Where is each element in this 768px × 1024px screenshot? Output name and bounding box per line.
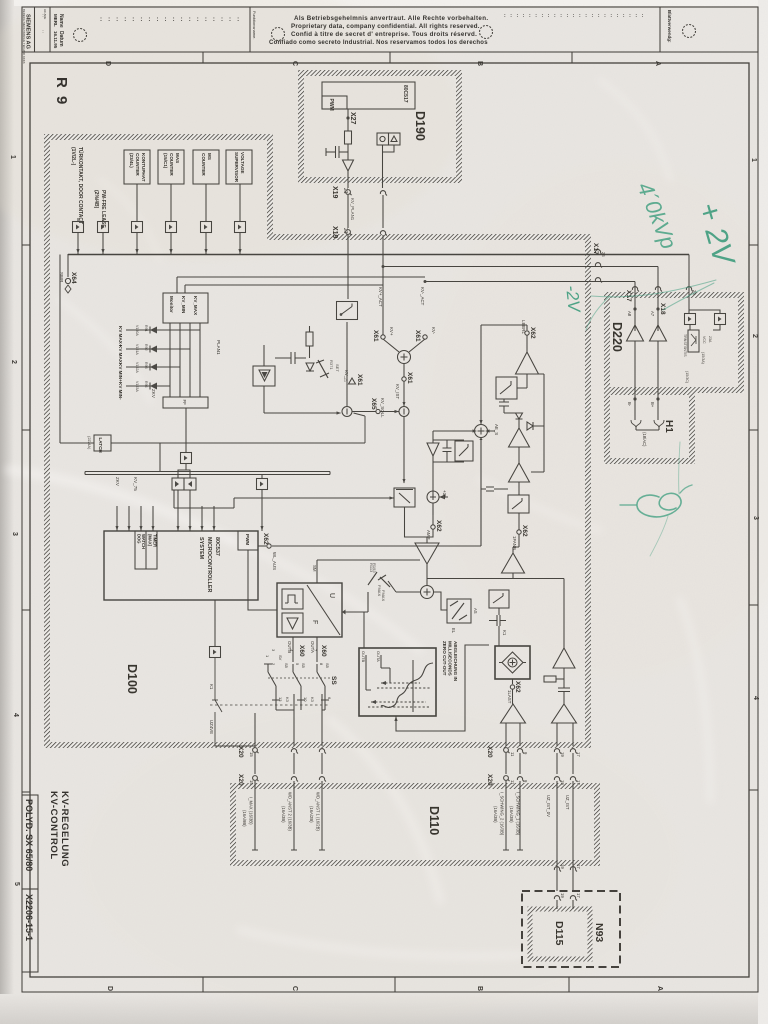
zone tick marks right [749, 244, 758, 246]
buffer amplifier V190 [343, 160, 354, 171]
block D220 hatched border [607, 295, 741, 390]
capacitor C110 [489, 615, 506, 626]
transistor sub box [688, 330, 699, 352]
svg-text:WL_AUS: WL_AUS [272, 552, 277, 570]
svg-text:K1: K1 [209, 684, 214, 690]
svg-text:X61: X61 [406, 372, 413, 384]
svg-text:R113: R113 [369, 563, 374, 573]
svg-text:19: 19 [560, 893, 565, 898]
output amplifier V121 [552, 704, 577, 723]
green doodle (circled scribble) [637, 493, 681, 517]
svg-text:LATCH: LATCH [98, 438, 103, 454]
switch S106 [455, 441, 473, 461]
svg-text:A: A [654, 61, 661, 66]
svg-text:: :: : : [41, 30, 46, 33]
svg-text:21: 21 [342, 188, 348, 194]
svg-text:(16A/3B): (16A/3B) [509, 806, 514, 823]
block D100 hatched border [47, 137, 588, 745]
svg-text:KV_75: KV_75 [133, 477, 138, 491]
capacitor C134 [481, 487, 508, 491]
wire from latch [159, 443, 161, 472]
wire y578 [427, 579, 564, 649]
svg-text:Name: Name [58, 14, 64, 28]
svg-text:WD_ANST 1 (16/2B): WD_ANST 1 (16/2B) [316, 792, 321, 831]
interface boxes row [73, 222, 84, 233]
crease streaks [10, 80, 710, 956]
svg-text:KV MAX+: KV MAX+ [118, 326, 123, 347]
amplifier V130 [516, 352, 539, 374]
svg-text:4: 4 [12, 713, 19, 717]
svg-text:X61: X61 [414, 330, 421, 342]
svg-text:V161A: V161A [135, 344, 139, 355]
feedback wire below scope [396, 645, 489, 731]
block D190 hatched border [301, 73, 459, 180]
svg-text:D: D [106, 986, 113, 991]
interface boxes in D220 [685, 314, 696, 325]
svg-text:FF: FF [182, 400, 187, 406]
svg-text:SV: SV [278, 655, 283, 661]
svg-text:(2Z/4A): (2Z/4A) [87, 436, 92, 450]
summing node +3E [427, 491, 439, 503]
svg-text:LEERL: LEERL [521, 320, 526, 334]
potentiometer R371 SET [318, 360, 328, 378]
svg-text:MICROCONTROLLER: MICROCONTROLLER [206, 537, 212, 593]
svg-text:R 9: R 9 [53, 77, 70, 106]
svg-text:-2V: -2V [562, 284, 584, 314]
wire from summing node S top [481, 325, 527, 330]
svg-text:SIEMENS AG: SIEMENS AG [25, 14, 31, 49]
svg-text:(15/3A): (15/3A) [701, 352, 705, 364]
svg-text:X62: X62 [521, 525, 528, 537]
svg-text:X60: X60 [298, 645, 305, 657]
svg-text:R92: R92 [144, 344, 148, 351]
svg-text:80C537: 80C537 [214, 537, 220, 556]
node X62 1LAST [512, 679, 514, 684]
zone tick marks top [202, 52, 204, 63]
svg-text:AMP: AMP [426, 530, 431, 540]
node X27 [346, 116, 349, 119]
svg-text:UZ4VE: UZ4VE [209, 720, 214, 734]
CPU label [198, 537, 220, 593]
connector boxes in D190 [377, 133, 389, 145]
svg-text:V160A: V160A [135, 325, 139, 336]
svg-text:(18/AC): (18/AC) [642, 432, 647, 447]
svg-text:(16A/9B): (16A/9B) [242, 810, 247, 827]
wires between rows [255, 753, 573, 774]
summing node B [421, 586, 434, 599]
junction nodes A8 A7 in D220 [633, 307, 636, 310]
pins into D115 [554, 896, 561, 901]
wires with arrows to bus [76, 233, 241, 255]
svg-text:OUTA: OUTA [376, 651, 381, 662]
wire KV- to D220 [425, 282, 635, 332]
svg-text:F: F [311, 620, 318, 624]
svg-text:C: C [291, 986, 298, 991]
svg-text:Confid à titre de secret d' en: Confid à titre de secret d' entreprise. … [291, 31, 477, 38]
svg-text:K3: K3 [310, 697, 315, 703]
svg-text:: :: : : [41, 14, 46, 17]
svg-text:COUNTER: COUNTER [169, 153, 174, 176]
svg-text:X19: X19 [331, 226, 338, 239]
long control wires [85, 472, 330, 475]
latch box LATCH (2Z/4A) [94, 435, 111, 451]
main bus wire [68, 254, 689, 256]
wire terminals inside D110 [252, 812, 523, 850]
svg-text:(16A/3B): (16A/3B) [493, 806, 498, 823]
svg-text:B: B [476, 61, 483, 66]
svg-text:UZ_IST_0V: UZ_IST_0V [546, 795, 551, 817]
svg-text:X60: X60 [320, 645, 327, 657]
junction node [342, 407, 352, 417]
svg-text:I_SCHWING_2 (16/3B): I_SCHWING_2 (16/3B) [500, 792, 505, 836]
amplifier V120 [553, 648, 575, 668]
svg-text:11: 11 [510, 780, 515, 785]
svg-text:X61: X61 [372, 330, 379, 342]
wires below F/U: OUTB OUTA [293, 637, 317, 662]
wire from bus +2V [688, 255, 690, 311]
svg-text:S5: S5 [325, 663, 330, 669]
switch S101 on plan wire [337, 302, 358, 320]
svg-text:PWM: PWM [328, 99, 334, 111]
svg-text:X62: X62 [514, 681, 521, 693]
diode V105 [306, 363, 314, 371]
svg-text:A7: A7 [650, 311, 655, 317]
svg-text:Blattverwendg:: Blattverwendg: [667, 10, 672, 43]
buffer amplifiers in D220 [627, 325, 644, 341]
header strip contents [22, 9, 672, 64]
svg-text:X20: X20 [486, 774, 493, 786]
svg-text:KONTUPHAT: KONTUPHAT [141, 153, 146, 182]
relay contact K1 [215, 658, 255, 746]
svg-text:SUPERVISOR: SUPERVISOR [234, 152, 239, 183]
wire from PWM cell [248, 550, 277, 610]
svg-text:MERL: MERL [53, 14, 58, 27]
svg-text:KV+_ACT: KV+_ACT [378, 287, 383, 307]
svg-text:(15/C1): (15/C1) [163, 153, 168, 169]
wire [347, 171, 349, 188]
svg-text:+3E: +3E [442, 490, 447, 498]
svg-text:KV+: KV+ [389, 327, 394, 336]
wire at left x60 [60, 255, 94, 444]
svg-text:V163A: V163A [135, 381, 139, 392]
svg-text:PWM: PWM [245, 534, 250, 545]
svg-text:S5: S5 [301, 663, 306, 669]
scope box ABGLEICHUNG [359, 648, 436, 716]
svg-text:A8: A8 [627, 311, 632, 317]
svg-text:(MAX): (MAX) [148, 534, 153, 547]
node X62 AMP [431, 525, 435, 529]
amplifier V110 (down) [415, 543, 439, 564]
svg-text:COUNTER: COUNTER [135, 153, 140, 176]
capacitor C120 [558, 688, 570, 692]
svg-text:OUTB: OUTB [287, 641, 292, 653]
svg-text:1: 1 [750, 158, 757, 162]
brace [631, 420, 664, 427]
svg-text:I_MAX (16/3B): I_MAX (16/3B) [249, 797, 254, 825]
svg-text:SM: SM [312, 565, 317, 572]
triangle cell [282, 613, 303, 633]
svg-text:2: 2 [10, 360, 17, 364]
svg-text:4: 4 [752, 696, 759, 700]
wires into microcontroller top with arrows [116, 506, 264, 531]
left stub from node1 [111, 413, 365, 443]
svg-text:19: 19 [560, 864, 565, 869]
svg-text:N93: N93 [593, 923, 605, 942]
IC U190 80C517/PWM box [322, 82, 415, 109]
svg-text:AE_S: AE_S [494, 424, 499, 435]
svg-text:: : : : : : : : : : : : : : :: : : : : : : : : : : : : : : : : : : : : … [504, 13, 645, 19]
wire node2 down to limiter [403, 417, 405, 484]
svg-text:KV MAX-: KV MAX- [118, 345, 123, 365]
wire from SS into scope [363, 612, 365, 648]
svg-text:SS: SS [330, 676, 337, 685]
svg-text:80C517: 80C517 [402, 85, 408, 103]
internal stubs [366, 655, 390, 690]
svg-text:19: 19 [560, 780, 565, 785]
zone tick marks left [22, 244, 30, 246]
svg-text:KV_MAX: KV_MAX [193, 296, 198, 316]
svg-text:AS: AS [473, 608, 478, 614]
switch contacts [264, 664, 276, 694]
svg-text:X61: X61 [356, 374, 363, 386]
zone tick marks bottom [202, 977, 204, 992]
wire [426, 564, 428, 586]
svg-text:X62: X62 [262, 533, 269, 545]
svg-text:11: 11 [510, 752, 515, 757]
svg-text:K1: K1 [502, 630, 507, 636]
amplifier V133 [509, 428, 530, 447]
svg-text:S5: S5 [284, 663, 289, 669]
block H1 hatched border [607, 392, 692, 461]
stray green stroke through D220 [591, 280, 716, 297]
svg-text:X20: X20 [486, 746, 493, 758]
svg-text:1: 1 [9, 155, 16, 159]
summing amp X0 [383, 339, 425, 352]
interface box under uC [210, 647, 221, 658]
wire from left into limiter [174, 490, 394, 508]
svg-text:(15/3C): (15/3C) [685, 371, 689, 383]
svg-text:X65: X65 [370, 398, 377, 410]
svg-text:15: 15 [249, 780, 254, 785]
svg-text:(23/4L): (23/4L) [129, 153, 134, 168]
svg-text:Confiado como secreto Industri: Confiado como secreto Industrial. Nos re… [269, 40, 488, 46]
block W93 dashed outline [522, 891, 620, 967]
warm tint patches [0, 0, 460, 260]
multiplier box U115 [495, 646, 530, 679]
switch S130 [526, 374, 528, 378]
junction node 2 [399, 407, 409, 417]
svg-text:A: A [656, 986, 663, 991]
wires from inputs to interface boxes [77, 218, 79, 222]
comparator box with triangle [253, 366, 275, 386]
svg-text:KV_PLAN1: KV_PLAN1 [350, 198, 355, 221]
resistor R120 [544, 676, 556, 682]
svg-text:B+: B+ [650, 402, 655, 408]
svg-text:D100: D100 [125, 664, 139, 694]
wire [347, 109, 349, 131]
svg-text:POLYD. SX 65/80: POLYD. SX 65/80 [24, 799, 34, 871]
svg-text:26: 26 [601, 252, 606, 257]
svg-text:KV MIN+: KV MIN+ [118, 363, 123, 382]
svg-text:5: 5 [13, 882, 20, 886]
svg-text:17: 17 [576, 864, 581, 869]
svg-text:KV-REGELUNG: KV-REGELUNG [59, 791, 70, 867]
svg-text:1LAST: 1LAST [507, 690, 512, 704]
F/U converter box [277, 583, 342, 637]
block D115 hatched border [530, 909, 590, 959]
svg-text:X2206-15-1: X2206-15-1 [24, 894, 34, 941]
wire KVsoll row [352, 411, 399, 413]
svg-text:KV_IST: KV_IST [395, 384, 400, 399]
svg-text:H1: H1 [663, 420, 674, 433]
svg-text:D220: D220 [610, 322, 624, 352]
wire from SM into F/U [317, 560, 420, 583]
amplifier V135 [502, 553, 525, 573]
svg-text:17: 17 [576, 780, 581, 785]
svg-text:X17: X17 [592, 243, 599, 255]
svg-text:D: D [104, 61, 111, 66]
svg-text:ABGLEICHUNG IN: ABGLEICHUNG IN [453, 641, 458, 682]
svg-text:D190: D190 [413, 111, 427, 141]
wire [346, 322, 348, 406]
svg-text:VOLTAGE: VOLTAGE [240, 152, 245, 174]
svg-text:Datum: Datum [58, 31, 64, 47]
wire [383, 145, 395, 188]
svg-text:X20: X20 [237, 774, 244, 786]
amplifier V134 [509, 463, 530, 482]
svg-text:KV-CONTROL: KV-CONTROL [48, 791, 59, 860]
svg-text:X62: X62 [529, 327, 536, 339]
svg-text:MS: MS [207, 153, 212, 160]
interface box on control line [181, 453, 192, 464]
wires through D110 to W93 [557, 812, 573, 862]
feedback wire [531, 374, 544, 472]
wire into D100 [347, 235, 349, 299]
svg-text:EL: EL [451, 628, 456, 634]
svg-text:KV-_ACT: KV-_ACT [420, 287, 425, 306]
svg-text:ZERO CUT-OUT: ZERO CUT-OUT [442, 641, 447, 676]
IC 80C537 microcontroller box [104, 531, 258, 600]
svg-text:X64: X64 [70, 272, 77, 284]
waveform [381, 663, 433, 707]
amplifier V106 (down) [427, 443, 439, 456]
svg-text:OUTB: OUTB [361, 651, 366, 662]
X20 row 1 [237, 746, 493, 758]
scope axis [412, 660, 414, 712]
svg-text:3: 3 [11, 532, 18, 536]
diode arrows per row [126, 327, 200, 390]
svg-text:3: 3 [752, 516, 759, 520]
header strip border [22, 7, 758, 52]
resistor R190 [345, 131, 352, 144]
svg-text:X20: X20 [237, 746, 244, 758]
svg-text:: : : : : : : : : : : : : : :: : : : : : : : : : : : : : : : : : : [100, 17, 241, 23]
switch S134 [508, 495, 529, 513]
wires to X20 [506, 723, 520, 746]
svg-text:PW-FRE LEASE: PW-FRE LEASE [100, 190, 106, 228]
svg-text:UZ_IST: UZ_IST [565, 795, 570, 810]
parallel trio: amplifier, capacitor, switch [433, 431, 467, 497]
comparator row KV MAX+ / V160A R91 [118, 326, 123, 400]
svg-text:K3: K3 [285, 697, 290, 703]
watchdog sub-box [135, 531, 157, 569]
svg-text:R94: R94 [144, 381, 148, 388]
svg-text:FMAX: FMAX [377, 585, 382, 596]
svg-text:KV_MIN: KV_MIN [181, 296, 186, 314]
punch hole circles [74, 29, 87, 42]
svg-text:19: 19 [560, 752, 565, 757]
interface box mid [257, 479, 268, 490]
svg-text:SYSTEM: SYSTEM [198, 537, 204, 560]
svg-text:Monitor: Monitor [169, 296, 174, 313]
svg-text:R91: R91 [144, 325, 148, 332]
svg-text:TRNSTSNTIS: TRNSTSNTIS [683, 334, 687, 357]
capacitor C190 [339, 151, 348, 153]
svg-text:ZKV: ZKV [115, 477, 120, 487]
svg-text:V162A: V162A [135, 362, 139, 373]
svg-text:VCC: VCC [702, 336, 706, 344]
svg-text:TÜRKONTAKT, DOOR CONTACT: TÜRKONTAKT, DOOR CONTACT [77, 147, 84, 224]
resistor R105 [306, 332, 313, 346]
PWM sub-box [238, 531, 258, 550]
svg-text:X62: X62 [435, 520, 442, 532]
latch FF box [163, 397, 208, 408]
wire [403, 364, 405, 407]
svg-text:Proprietary data, company conf: Proprietary data, company confidential. … [291, 23, 480, 30]
svg-text:(1V/2L-): (1V/2L-) [70, 147, 76, 166]
svg-text:KV-: KV- [431, 327, 436, 335]
svg-text:(16A/2B): (16A/2B) [309, 806, 314, 823]
wire KV_PLAN1 [347, 195, 349, 228]
svg-text:(16A/3B): (16A/3B) [281, 806, 286, 823]
svg-text:X19: X19 [331, 186, 338, 199]
resistor R113 FMAX into F/U [342, 572, 377, 612]
pot box EL/AS [434, 592, 448, 610]
wires monitor to FF [170, 323, 200, 397]
svg-text:COUNTER: COUNTER [201, 153, 206, 176]
counter box KONTUPHAT COUNTER (23/4L) [124, 150, 150, 184]
title block bottom-left [22, 795, 38, 889]
svg-text:Funktionsname.: Funktionsname. [252, 11, 257, 39]
wires below FF [178, 408, 190, 478]
node X64 / SWR [67, 254, 69, 277]
wire SM [272, 438, 481, 546]
lower contacts K3 [276, 694, 325, 710]
svg-text:D110: D110 [427, 806, 441, 835]
diode V132 [527, 422, 544, 430]
svg-text:WD_ANST 2 (16/3B): WD_ANST 2 (16/3B) [288, 792, 293, 831]
svg-text:17: 17 [576, 752, 581, 757]
wires to X20 row [255, 694, 325, 746]
capacitor C105 [275, 352, 306, 364]
svg-text:U: U [328, 593, 335, 598]
output amplifier V115 [501, 704, 526, 723]
svg-text:ZKV: ZKV [151, 389, 156, 399]
counter box MAS COUNTER (15/C1) [158, 150, 184, 184]
svg-text:MILLISECONDS: MILLISECONDS [448, 641, 453, 676]
switch S110 [489, 590, 509, 608]
svg-text:(2%/4B): (2%/4B) [93, 190, 99, 209]
svg-text:MAS: MAS [175, 153, 180, 163]
counter box MS COUNTER [193, 150, 219, 184]
svg-text:C: C [291, 61, 298, 66]
svg-text:D115: D115 [553, 921, 565, 946]
node X62 WL_AUS [258, 545, 266, 547]
diode V131 [516, 413, 523, 419]
svg-text:23A: 23A [708, 336, 712, 343]
svg-text:DOG: DOG [137, 534, 142, 544]
wires into D110 [255, 781, 573, 812]
